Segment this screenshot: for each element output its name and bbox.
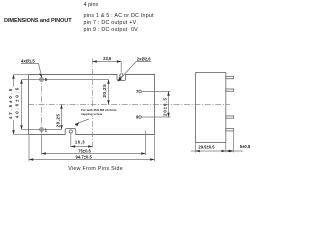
svg-text:4xØ1,5: 4xØ1,5 <box>21 59 35 64</box>
svg-text:2xØ2,6: 2xØ2,6 <box>137 57 151 62</box>
svg-text:29.5±0.5: 29.5±0.5 <box>198 145 215 150</box>
svg-text:1: 1 <box>45 127 48 132</box>
svg-text:View From Pins Side: View From Pins Side <box>68 166 123 172</box>
svg-text:DIMENSIONS and PINOUT: DIMENSIONS and PINOUT <box>4 18 72 24</box>
svg-text:47.5±0.5: 47.5±0.5 <box>8 87 13 119</box>
svg-text:16,3: 16,3 <box>75 140 85 145</box>
svg-text:pin 9 : DC output 0V: pin 9 : DC output 0V <box>84 27 139 33</box>
svg-text:20,25: 20,25 <box>102 84 107 98</box>
svg-text:94.7±0.5: 94.7±0.5 <box>76 154 93 159</box>
svg-text:4 pins: 4 pins <box>84 2 99 8</box>
svg-text:20±0,5: 20±0,5 <box>163 97 168 116</box>
svg-text:23,5: 23,5 <box>103 56 112 61</box>
svg-text:20,25: 20,25 <box>56 114 61 128</box>
svg-text:pin 7 : DC output +V: pin 7 : DC output +V <box>84 20 137 26</box>
svg-text:tapping screw: tapping screw <box>81 112 102 116</box>
svg-text:5±0.5: 5±0.5 <box>240 144 251 149</box>
svg-text:75±0.5: 75±0.5 <box>78 149 91 154</box>
svg-text:pins 1 & 5 : AC or DC Input: pins 1 & 5 : AC or DC Input <box>84 13 155 19</box>
svg-text:40.0±0.5: 40.0±0.5 <box>14 86 19 118</box>
